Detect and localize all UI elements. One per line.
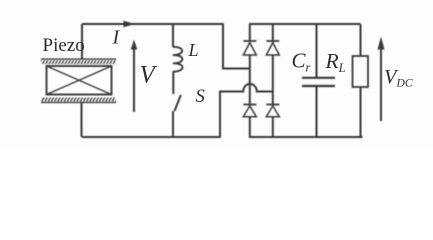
svg-text:I: I	[112, 26, 121, 48]
svg-text:S: S	[196, 87, 205, 107]
svg-text:VDC: VDC	[384, 66, 413, 90]
wire bottom rail left	[82, 136, 220, 138]
wire bridge top rail	[249, 23, 361, 25]
output voltage arrow VDC	[380, 49, 382, 121]
diode D3 (bottom left, pointing up)	[243, 104, 256, 106]
inductor L	[172, 24, 174, 47]
wire top rail left	[82, 23, 223, 25]
svg-text:RL: RL	[325, 49, 346, 75]
svg-text:Cr: Cr	[292, 48, 311, 74]
piezo PZ1 top electrode plate	[41, 59, 116, 65]
node: right branch verticals	[272, 24, 274, 137]
capacitor Cr	[316, 24, 318, 77]
piezo PZ1 body	[47, 66, 112, 95]
wire piezo top lead	[81, 24, 83, 59]
wire piezo bottom lead	[81, 103, 83, 137]
svg-text:V: V	[140, 62, 158, 89]
svg-text:Piezo: Piezo	[43, 35, 85, 56]
wire bridge bottom rail	[249, 136, 363, 138]
wire bridge input bottom with hop over left branch	[220, 84, 272, 138]
diode D4 (bottom right, pointing up)	[266, 104, 279, 106]
piezo PZ1 bottom electrode plate	[41, 98, 116, 104]
wire bridge input top (from top rail to left branch mid)	[223, 23, 249, 68]
diode D1 (top left, pointing up)	[243, 40, 256, 42]
switch S	[175, 95, 181, 111]
node: left branch verticals	[249, 24, 251, 137]
resistor RL	[360, 24, 362, 56]
diode D2 (top right, pointing up)	[266, 40, 279, 42]
svg-text:L: L	[188, 40, 199, 60]
current arrow I	[121, 23, 134, 25]
voltage arrow V	[133, 47, 135, 112]
